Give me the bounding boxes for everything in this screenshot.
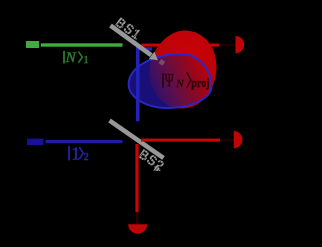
label BS2 (hatched) with arrow tip [130,140,180,185]
detector D2 [234,131,243,148]
blue ellipse outline [129,54,212,108]
wire: blue input beam 2 [46,140,123,143]
wire: blue stub after BS1 (under ellipses) [136,47,152,50]
wire: red beam BS2 to detector D2 [141,139,220,142]
svg-text:N: N [65,50,77,66]
svg-text:N: N [175,78,184,90]
blue ellipse mode (fill) [129,54,212,108]
svg-text:1: 1 [84,55,89,66]
svg-text:1: 1 [71,143,80,163]
input port |N>1 thick segment [26,41,39,48]
label |1>2 [68,143,88,163]
wire: dark segment before detector D1 [219,44,236,46]
beam splitter BS2 line [110,121,164,159]
label BS1 (hatched) [100,5,160,55]
wire: red beam BS2 down to detector D3 [135,144,138,212]
red ellipse mode (fill) [150,31,217,109]
detector D1 [236,36,245,53]
wire: dark segment before detector D2 [220,139,234,141]
label |N>1 [63,50,88,66]
beam splitter BS1 arrow [111,26,166,66]
svg-text:2: 2 [84,152,89,163]
svg-text:Ψ: Ψ [165,70,174,90]
label |Psi_N>proj [162,70,209,90]
wire: blue vertical beam BS1 to BS2 [136,46,140,121]
wire: red beam BS1 to detector D1 [142,44,220,47]
wire: dark segment before detector D3 [136,212,139,224]
wire: green input beam 1 [41,43,123,46]
svg-text:proj: proj [191,75,210,90]
input port |1>2 thick segment [27,139,44,145]
overlap lens gradient [150,31,217,109]
detector D3 [128,224,147,234]
